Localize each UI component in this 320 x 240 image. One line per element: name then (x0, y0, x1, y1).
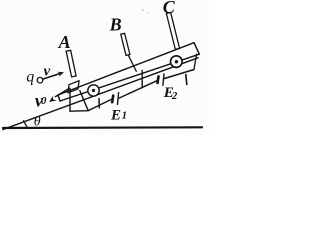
svg-text:C: C (163, 0, 176, 17)
svg-text:E: E (110, 107, 121, 123)
svg-text:1: 1 (122, 110, 127, 121)
svg-text:θ: θ (34, 115, 41, 130)
svg-text:0: 0 (41, 95, 47, 107)
svg-text:A: A (58, 32, 71, 52)
svg-text:B: B (109, 15, 122, 35)
svg-text:q: q (26, 68, 34, 85)
svg-text:2: 2 (171, 91, 178, 102)
svg-text:v: v (44, 63, 51, 79)
